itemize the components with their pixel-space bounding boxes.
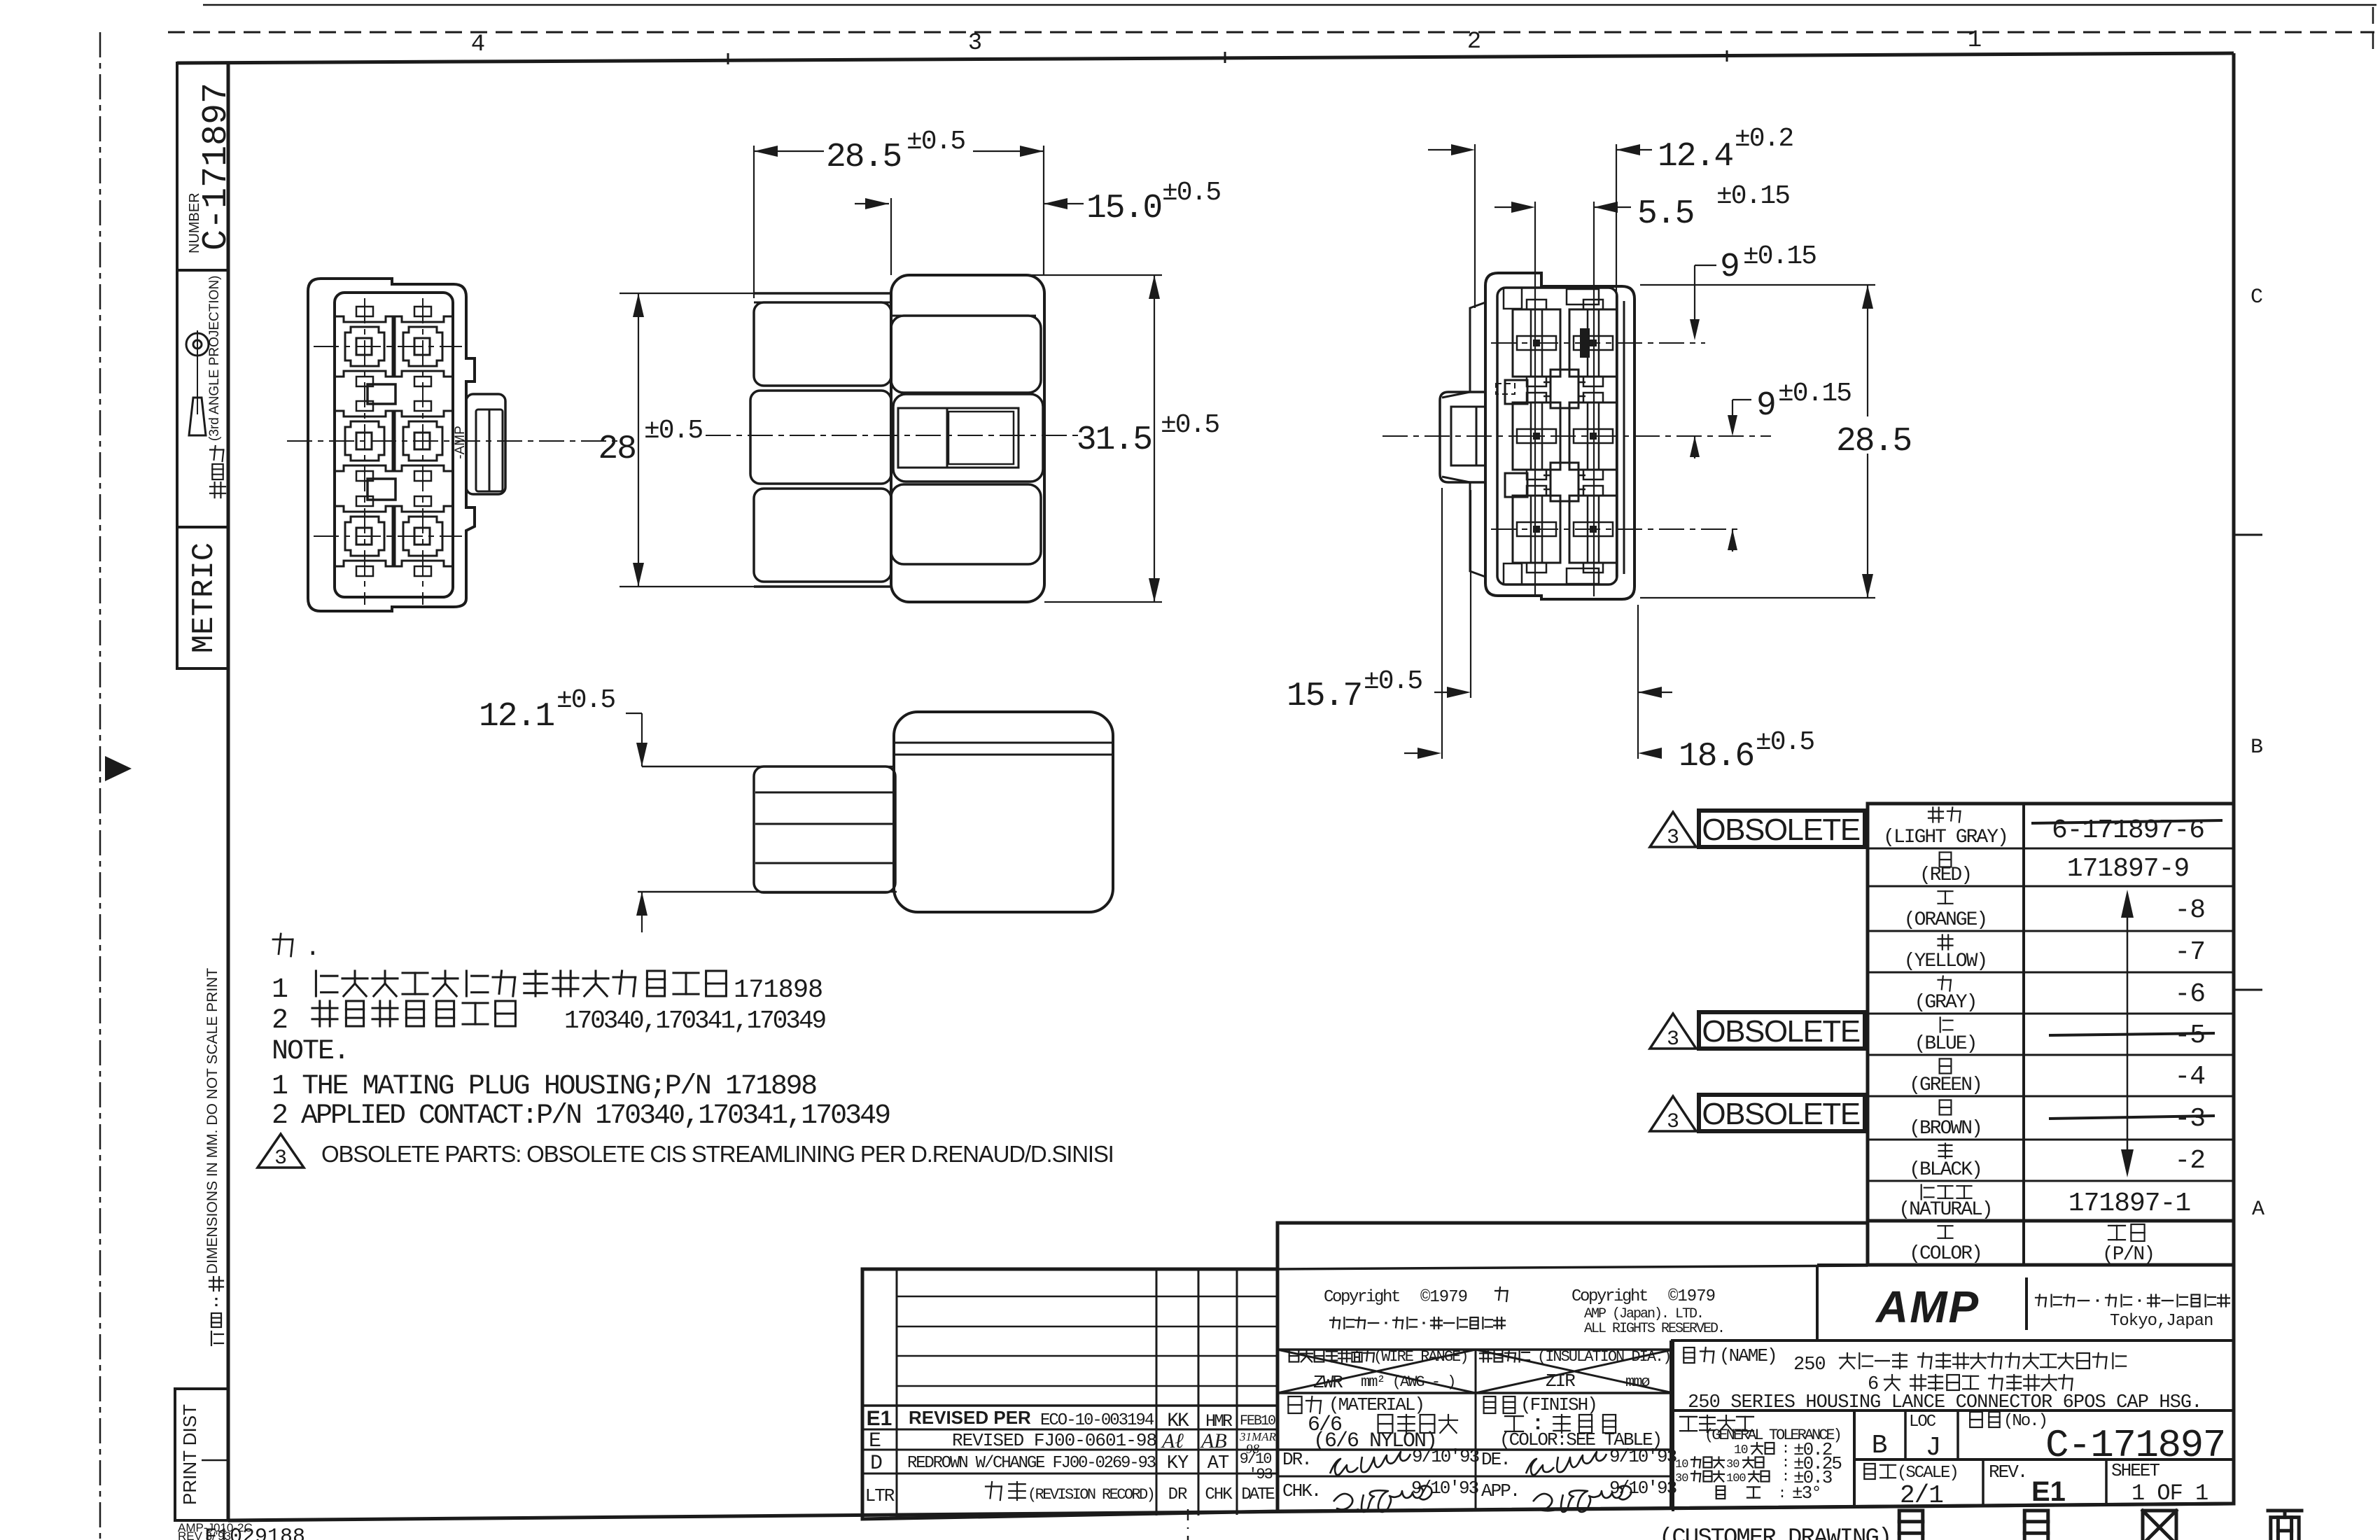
svg-text:±0.5: ±0.5 <box>1162 178 1220 208</box>
svg-text:E1: E1 <box>2031 1476 2066 1507</box>
zone tick top 2/1 <box>1726 50 1728 62</box>
dim 12.4 ext line left <box>1474 144 1476 308</box>
B LOC row bottom line <box>1854 1458 2234 1461</box>
revision row E1 top line <box>862 1404 1277 1407</box>
color name row 5 (GRAY) <box>1938 979 1952 981</box>
dim 15.0 right tail line <box>1044 203 1084 204</box>
rear view center rib lower <box>1550 463 1578 501</box>
svg-text:A: A <box>2252 1198 2264 1221</box>
dim 12.1 leader horizontal <box>626 713 642 714</box>
svg-text:±0.5: ±0.5 <box>644 416 702 446</box>
svg-text:-8: -8 <box>2174 895 2205 925</box>
svg-text:±0.15: ±0.15 <box>1716 181 1789 211</box>
dim 5.5 ext/centerline col1 <box>1534 202 1536 596</box>
note j2 kanji applied contact <box>312 1007 337 1009</box>
svg-text:15.7: 15.7 <box>1287 678 1361 715</box>
svg-text:-2: -2 <box>2174 1146 2205 1176</box>
svg-text:REVISED FJ00-0601-98: REVISED FJ00-0601-98 <box>952 1430 1156 1451</box>
color name row 7 (GREEN) <box>1940 1059 1952 1074</box>
svg-text:9: 9 <box>1720 248 1739 286</box>
rear view left flange contour lower <box>1442 477 1485 577</box>
dim 9 lower vertical with down arrow <box>1732 400 1733 425</box>
svg-text:AMP: AMP <box>1875 1282 1980 1332</box>
svg-text:Tokyo,Japan: Tokyo,Japan <box>2110 1312 2213 1331</box>
side view front body outline <box>891 275 1044 602</box>
dim 12.1 lower tail <box>641 892 643 932</box>
svg-text:AMP (Japan). LTD.: AMP (Japan). LTD. <box>1584 1306 1703 1322</box>
zone tick right C/B <box>2234 534 2262 536</box>
svg-text:B: B <box>1872 1431 1888 1461</box>
side view latch divider <box>946 408 948 468</box>
revision row LTR top line <box>862 1473 1277 1475</box>
svg-text:FEB10: FEB10 <box>1240 1413 1275 1429</box>
dim 18.6 right arrow <box>1638 748 1662 759</box>
dim 9 upper vertical with down arrow <box>1694 265 1695 329</box>
color table row line 10 <box>1868 1219 2234 1223</box>
front view tab inner rect <box>476 409 503 491</box>
dim 28.5 arrow right <box>1020 146 1044 157</box>
rear view center rib upper <box>1550 370 1578 408</box>
svg-text::: : <box>1778 1486 1786 1502</box>
front view outer housing outline <box>308 279 475 611</box>
side view front band B <box>891 316 1041 393</box>
bottom view grommet line 3 <box>755 862 895 864</box>
svg-text:±0.5: ±0.5 <box>1161 410 1219 440</box>
svg-text:(NATURAL): (NATURAL) <box>1898 1199 1991 1221</box>
side view rear grommet bottom edge <box>754 585 891 588</box>
svg-text:.: . <box>305 934 321 962</box>
DR/DE divider <box>1475 1450 1477 1511</box>
dim 15.7 left line and arrow <box>1434 692 1455 693</box>
svg-text:DE.: DE. <box>1481 1449 1510 1470</box>
name label <box>1683 1347 1694 1363</box>
front view keyway lower <box>367 479 395 500</box>
finish content color see table jp <box>1505 1415 1523 1417</box>
svg-text:250: 250 <box>1793 1354 1826 1375</box>
dim 12.1 arrow down <box>636 743 647 766</box>
svg-text:ALL RIGHTS RESERVED.: ALL RIGHTS RESERVED. <box>1584 1321 1724 1337</box>
svg-text:OBSOLETE: OBSOLETE <box>1702 813 1859 847</box>
name box left line <box>1669 1340 1672 1507</box>
svg-text:±0.5: ±0.5 <box>556 685 615 715</box>
revision table col DATE divider <box>1236 1269 1238 1515</box>
color name row 1 (LIGHT GRAY) <box>1928 811 1943 812</box>
revision row D top line <box>862 1449 1277 1451</box>
dim 28 arrow down <box>633 563 644 587</box>
obsolete flag 3 triangle <box>1650 1096 1696 1131</box>
svg-text:170340,170341,170349: 170340,170341,170349 <box>564 1007 825 1035</box>
side view latch window <box>893 394 1043 482</box>
color table row line 8 <box>1868 1139 2234 1141</box>
obsolete flag 1 box <box>1699 811 1865 847</box>
svg-text:mmø: mmø <box>1625 1373 1649 1391</box>
side view centerline <box>706 435 1078 436</box>
main frame bottom edge <box>228 1504 2234 1520</box>
svg-text:NOTE.: NOTE. <box>272 1036 349 1067</box>
dim 28.5 dimension line left segment <box>754 150 824 152</box>
sidebar projection box <box>177 270 228 527</box>
obsolete flag 2 triangle <box>1650 1014 1696 1049</box>
bottom view top edge extension <box>642 766 894 768</box>
dim 28.5 right arrow up <box>1862 285 1873 309</box>
svg-text:Aℓ: Aℓ <box>1161 1429 1184 1452</box>
svg-text:DR.: DR. <box>1282 1449 1311 1470</box>
svg-text:171897-9: 171897-9 <box>2067 854 2189 884</box>
dim 28 extension line top <box>619 293 891 294</box>
revision empty row line 4 <box>897 1385 1277 1387</box>
svg-text:C: C <box>2250 286 2263 309</box>
rear view inner cavity block <box>1497 288 1617 584</box>
svg-text:C-171897: C-171897 <box>197 83 237 251</box>
paper top edge line <box>203 4 2376 6</box>
side view front groove line top <box>891 315 1036 317</box>
rear view row1 centerline <box>1491 342 1705 344</box>
rear view left flange contour upper <box>1442 302 1485 398</box>
front view cavity 6 <box>393 506 453 566</box>
dim 28.5 right ext line bottom <box>1640 597 1875 598</box>
scale label <box>1864 1464 1875 1479</box>
fold mark triangle left margin <box>105 756 132 781</box>
obsolete flag 2 box <box>1699 1012 1865 1049</box>
rear view bottom castellation right <box>1567 568 1599 584</box>
zone tick right B/A <box>2234 989 2262 991</box>
side view grommet finger 1 <box>754 302 891 386</box>
svg-text:©1979: ©1979 <box>1420 1288 1467 1307</box>
center block outline <box>1277 1223 2234 1511</box>
svg-text:Copyright: Copyright <box>1324 1288 1399 1307</box>
rear view latch tab inner divider <box>1476 407 1478 465</box>
revision empty row line 3 <box>897 1355 1277 1357</box>
color name row 10 (NATURAL) <box>1921 1185 1922 1200</box>
color table row line 4 <box>1868 972 2234 974</box>
scale rev divider <box>1982 1459 1984 1505</box>
No label <box>1970 1412 1982 1427</box>
svg-text:CHK.: CHK. <box>1282 1480 1320 1501</box>
left dash-dot margin line <box>99 32 101 1540</box>
pn range arrow <box>2127 894 2129 1173</box>
svg-text:(GREEN): (GREEN) <box>1909 1074 1982 1096</box>
svg-text:OBSOLETE PARTS: OBSOLETE CIS S: OBSOLETE PARTS: OBSOLETE CIS STREAMLININ… <box>321 1141 1114 1167</box>
color table column divider <box>2022 804 2025 1265</box>
projection box kanji sankakuho <box>210 449 223 450</box>
obsolete flag 3 box <box>1699 1095 1865 1131</box>
dim 15.7 ext line at tab right face <box>1470 490 1471 698</box>
color name row 2 (RED) <box>1940 853 1952 867</box>
revision table col DR divider <box>1156 1269 1158 1515</box>
svg-text:(LIGHT GRAY): (LIGHT GRAY) <box>1883 827 2008 848</box>
insulation cell right divider <box>1672 1340 1674 1511</box>
svg-text:-4: -4 <box>2174 1062 2205 1092</box>
material cell label <box>1288 1396 1301 1413</box>
PRINT DIST divider <box>202 1459 228 1462</box>
front view vertical centerline col2 <box>422 298 423 605</box>
svg-text:(BROWN): (BROWN) <box>1909 1118 1982 1140</box>
material/finish divider <box>1475 1393 1477 1450</box>
dim 18.6 ext line at body right <box>1637 605 1639 759</box>
tolerance label kanji <box>1680 1416 1697 1417</box>
svg-text:Copyright: Copyright <box>1571 1287 1647 1306</box>
svg-text:(FINISH): (FINISH) <box>1520 1394 1597 1415</box>
svg-text:(CUSTOMER DRAWING): (CUSTOMER DRAWING) <box>1659 1525 1891 1540</box>
dim 18.6 left tail and arrow <box>1404 752 1425 754</box>
note j1 kanji mating housing <box>315 971 317 996</box>
bottom view front step line 1 <box>895 742 1112 744</box>
svg-text:-AMP: -AMP <box>453 426 468 459</box>
dim 28 arrow up <box>633 293 644 317</box>
svg-text:REDROWN W/CHANGE FJ00-0269-93: REDROWN W/CHANGE FJ00-0269-93 <box>907 1454 1156 1473</box>
revision table col CHK divider <box>1198 1269 1200 1515</box>
svg-text:METRIC: METRIC <box>187 542 222 653</box>
tolerance row4 <box>1716 1486 1725 1499</box>
dim 5.5 left tail and arrow <box>1494 206 1512 208</box>
rear view latch tab outline <box>1440 392 1485 482</box>
svg-text:B: B <box>2250 736 2263 759</box>
svg-text:SHEET: SHEET <box>2111 1460 2159 1481</box>
wire range / insulation band top line <box>1277 1348 1673 1351</box>
color table row line 9 <box>1868 1180 2234 1182</box>
svg-text:1: 1 <box>1968 27 1982 54</box>
svg-text:1 OF 1: 1 OF 1 <box>2131 1480 2208 1506</box>
dim 28.5 right dim line upper segment <box>1867 285 1868 416</box>
svg-text:171898: 171898 <box>734 976 822 1005</box>
rear view latch tab inner rect <box>1451 407 1485 465</box>
svg-text:9/10'93: 9/10'93 <box>1412 1446 1479 1467</box>
revision empty row line 2 <box>897 1326 1277 1328</box>
bottom view bottom edge extension <box>638 891 897 893</box>
svg-text:30: 30 <box>1675 1472 1688 1485</box>
color table row line 3 <box>1868 930 2234 932</box>
dim 31.5 extension line bottom <box>1044 601 1162 603</box>
revision table col LTR divider <box>896 1269 898 1518</box>
dim 12.4 left tail and arrow <box>1428 149 1452 150</box>
svg-text:28: 28 <box>598 430 636 468</box>
insulation X cross <box>1476 1350 1673 1393</box>
svg-text:31.5: 31.5 <box>1077 421 1151 459</box>
rear view center rib lower wings <box>1543 475 1550 477</box>
bottom view rear grommet outline <box>754 766 895 892</box>
svg-text:(SCALE): (SCALE) <box>1897 1464 1958 1483</box>
revision empty row line 1 <box>897 1296 1277 1298</box>
svg-text:E1: E1 <box>867 1407 892 1430</box>
svg-text:±0.15: ±0.15 <box>1743 241 1816 272</box>
svg-text:KY: KY <box>1167 1453 1189 1474</box>
dim 28.5 right arrow down <box>1862 574 1873 598</box>
sidebar NUMBER box <box>177 63 228 270</box>
svg-text:3: 3 <box>274 1147 287 1170</box>
main frame right edge <box>2232 53 2236 1504</box>
svg-text:2 APPLIED CONTACT:P/N 170340,: 2 APPLIED CONTACT:P/N 170340,170341,1703… <box>272 1100 890 1132</box>
projection symbol cone <box>189 398 206 435</box>
svg-text:(MATERIAL): (MATERIAL) <box>1329 1394 1424 1415</box>
AMP logo divider <box>2025 1277 2028 1330</box>
insulation label kanji <box>1480 1352 1492 1354</box>
front view cavity 4 <box>393 411 453 471</box>
svg-text:9: 9 <box>1756 387 1775 425</box>
rear view keyway left upper with hidden dash rect <box>1505 380 1527 404</box>
svg-text:2: 2 <box>272 1005 288 1037</box>
dim 15.0 arrow right <box>1044 198 1067 209</box>
svg-text:10: 10 <box>1675 1458 1688 1471</box>
front view cavity 5 <box>335 506 395 566</box>
svg-text:±0.15: ±0.15 <box>1778 379 1851 409</box>
dim 28.5 extension line right <box>1043 146 1044 275</box>
svg-text:REVISED PER: REVISED PER <box>909 1407 1031 1428</box>
svg-text:F1029188: F1029188 <box>204 1525 305 1540</box>
name box top line <box>1671 1339 2234 1342</box>
bottom view grommet line 2 <box>755 823 895 825</box>
name box bottom line <box>1671 1409 2234 1412</box>
svg-text:(BLUE): (BLUE) <box>1914 1033 1977 1055</box>
material band bottom / DR row top line <box>1277 1448 1673 1451</box>
svg-text:±0.5: ±0.5 <box>1364 666 1422 696</box>
svg-text:E: E <box>869 1429 881 1453</box>
color name row 8 (BROWN) <box>1940 1100 1952 1115</box>
svg-text:9/10'93: 9/10'93 <box>1609 1446 1676 1467</box>
zone tick top 3/2 <box>1224 52 1226 63</box>
side view grommet finger 2 <box>750 391 891 484</box>
svg-text:30: 30 <box>1726 1458 1739 1471</box>
dim 31.5 dimension line <box>1154 275 1155 602</box>
dim 12.1 arrow up <box>636 892 647 916</box>
pn legend kanji kataban <box>2108 1225 2125 1226</box>
front view cavity 3 <box>335 411 395 471</box>
svg-text:3: 3 <box>1667 1028 1679 1051</box>
front view polarizing tab outline <box>466 394 505 494</box>
svg-text:100: 100 <box>1726 1472 1746 1485</box>
svg-text:'93: '93 <box>1248 1466 1272 1483</box>
color name row 6 (BLUE) <box>1940 1018 1941 1032</box>
svg-text:ECO-10-003194: ECO-10-003194 <box>1040 1411 1154 1430</box>
svg-text:(NAME): (NAME) <box>1719 1345 1777 1366</box>
svg-text:(3rd ANGLE PROJECTION): (3rd ANGLE PROJECTION) <box>207 276 222 442</box>
dim 9 lower leader <box>1732 399 1751 400</box>
rear view cavity 6 <box>1569 496 1617 563</box>
color name row 3 (ORANGE) <box>1938 890 1953 892</box>
svg-text:DIMENSIONS IN MM. DO NOT SCAL: DIMENSIONS IN MM. DO NOT SCALE PRINT <box>204 968 220 1274</box>
svg-text:(WIRE RANGE): (WIRE RANGE) <box>1373 1348 1467 1366</box>
dim 28.5 right dim line lower segment <box>1867 454 1868 598</box>
dim 28 dimension line <box>638 293 639 587</box>
wire range label kanji <box>1289 1350 1299 1362</box>
revision row E top line <box>862 1429 1277 1431</box>
svg-text:(ORANGE): (ORANGE) <box>1904 909 1987 931</box>
dim 5.5 right arrow and tail <box>1594 202 1618 213</box>
front view horizontal centerline row3 <box>314 535 462 537</box>
svg-text:±0.2: ±0.2 <box>1735 124 1793 154</box>
svg-text:2: 2 <box>1467 29 1481 55</box>
side view rear grommet top inner line <box>754 302 891 304</box>
sidebar PRINT DIST box <box>175 1389 228 1520</box>
rear view top castellation left <box>1504 288 1522 309</box>
dim 15.0 extension line left <box>890 198 892 275</box>
main frame left edge <box>227 62 230 1520</box>
side view grommet finger 3 <box>754 489 891 582</box>
front view horizontal centerline row1 <box>314 346 462 347</box>
rear view keyway left lower <box>1505 473 1527 497</box>
svg-text:LTR: LTR <box>865 1485 895 1506</box>
svg-text:±0.5: ±0.5 <box>906 127 965 157</box>
rear view cavity 3 <box>1513 402 1560 470</box>
svg-text:(GRAY): (GRAY) <box>1914 992 1977 1014</box>
svg-text:18.6: 18.6 <box>1679 738 1753 776</box>
svg-text:(BLACK): (BLACK) <box>1909 1159 1982 1181</box>
dim 9 upper leader <box>1695 265 1716 266</box>
right top corner dashes <box>2372 7 2374 49</box>
svg-text:CHK: CHK <box>1205 1485 1233 1504</box>
front view tab divider <box>489 409 491 491</box>
svg-text:28.5: 28.5 <box>826 139 901 176</box>
svg-text:15.0: 15.0 <box>1086 190 1161 227</box>
svg-text:(REVISION RECORD): (REVISION RECORD) <box>1028 1486 1154 1504</box>
color table row line 5 <box>1868 1013 2234 1015</box>
dim 15.0 left tail line <box>855 203 889 204</box>
dim 15.7 right arrow and tail <box>1638 687 1662 698</box>
svg-text:(RED): (RED) <box>1919 864 1971 886</box>
svg-text:OBSOLETE: OBSOLETE <box>1702 1014 1859 1049</box>
svg-text:-5: -5 <box>2174 1021 2205 1051</box>
dim 12.4 ext line right / feature line <box>1616 144 1617 581</box>
dim 28 extension line bottom <box>619 586 891 587</box>
svg-text:4: 4 <box>471 31 485 58</box>
rear view row2 centerline <box>1382 435 1771 437</box>
rear view bottom castellation left <box>1504 563 1522 584</box>
svg-text:DATE: DATE <box>1241 1485 1275 1504</box>
dim 15.0 arrow left <box>865 198 889 209</box>
dim 28.5 right ext line top <box>1640 284 1875 286</box>
svg-text:5.5: 5.5 <box>1637 195 1693 233</box>
rear view cavity 4 <box>1569 402 1617 470</box>
title block top rule through center <box>1277 1266 1868 1269</box>
svg-text:AT: AT <box>1207 1453 1229 1474</box>
zone tick top 4/3 <box>727 53 729 64</box>
svg-text:AB: AB <box>1200 1429 1227 1452</box>
color table row line 6 <box>1868 1054 2234 1056</box>
front view keyway upper <box>367 384 395 404</box>
tolerance box right divider <box>1853 1410 1856 1508</box>
svg-text:©1979: ©1979 <box>1668 1287 1715 1306</box>
dim 12.1 leader vertical <box>641 713 643 766</box>
DR CHK divider line <box>1277 1476 1673 1478</box>
svg-text:12.1: 12.1 <box>479 698 554 736</box>
svg-text:PRINT DIST: PRINT DIST <box>179 1404 200 1505</box>
front view cavity 1 <box>335 316 395 377</box>
svg-text:-3: -3 <box>2174 1104 2205 1134</box>
side view latch inner right rect <box>948 412 1014 464</box>
rear view row3 centerline <box>1491 528 1740 530</box>
AMP logo box left line <box>1816 1265 1819 1340</box>
svg-text:APP.: APP. <box>1481 1480 1519 1501</box>
svg-text:±0.5: ±0.5 <box>1756 727 1814 757</box>
sidebar METRIC box <box>177 527 228 668</box>
top dashed margin line <box>168 31 2374 34</box>
color table row line 2 <box>1868 885 2234 888</box>
rear view cavity 2 with black keyslot <box>1569 309 1617 377</box>
obsolete flag 1 triangle <box>1650 812 1696 847</box>
bottom view front step line 2 <box>895 754 1112 756</box>
bottom fold dash line <box>1187 1509 1189 1540</box>
AMP company kanji <box>2036 1297 2046 1298</box>
dim 12.4 right arrow and tail <box>1616 144 1640 155</box>
svg-text:LOC: LOC <box>1909 1413 1936 1431</box>
svg-text:10: 10 <box>1734 1443 1748 1457</box>
svg-text:(P/N): (P/N) <box>2102 1244 2154 1266</box>
svg-text:(INSULATION DIA.): (INSULATION DIA.) <box>1537 1348 1670 1366</box>
svg-text:(YELLOW): (YELLOW) <box>1904 951 1987 972</box>
color name row 11 (COLOR) <box>1938 1225 1953 1226</box>
wire range band bottom line <box>1277 1392 1673 1394</box>
svg-text:-6: -6 <box>2174 979 2205 1009</box>
svg-text:mm² (AWG - ): mm² (AWG - ) <box>1361 1373 1455 1391</box>
